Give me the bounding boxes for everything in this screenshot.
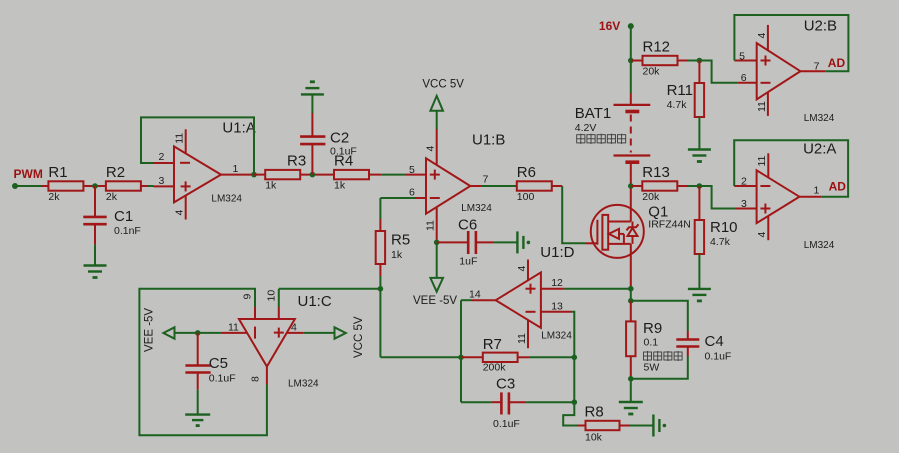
ground — [185, 415, 210, 426]
svg-text:C3: C3 — [496, 376, 515, 393]
svg-text:4: 4 — [425, 146, 437, 152]
svg-text:4.7k: 4.7k — [710, 236, 731, 248]
svg-text:11: 11 — [174, 133, 186, 144]
svg-text:16V: 16V — [599, 19, 620, 33]
power VCC arrow U1:C — [335, 316, 366, 358]
svg-text:8: 8 — [249, 376, 261, 382]
svg-text:R7: R7 — [483, 336, 502, 353]
ground — [517, 231, 530, 253]
resistor R7 — [483, 336, 518, 374]
wire — [698, 254, 700, 289]
wire — [631, 356, 688, 379]
svg-text:R2: R2 — [106, 164, 125, 181]
wire feedback U2:B — [734, 15, 848, 71]
node junction pin11-C6 — [434, 240, 440, 246]
resistor R9 — [626, 320, 662, 356]
wire — [630, 61, 632, 105]
svg-text:4: 4 — [516, 266, 528, 272]
svg-text:2k: 2k — [106, 191, 118, 203]
wire — [83, 185, 106, 187]
node junction R13-R10 — [697, 183, 703, 189]
svg-text:5W: 5W — [644, 362, 660, 374]
battery BAT1 — [575, 105, 651, 162]
svg-text:AD: AD — [828, 56, 846, 70]
svg-text:20k: 20k — [643, 66, 661, 78]
resistor R5 — [376, 219, 410, 276]
svg-text:4: 4 — [291, 322, 297, 334]
node junction C3-R8 — [572, 399, 578, 405]
wire — [630, 289, 632, 322]
svg-text:10: 10 — [266, 290, 278, 302]
wire — [630, 26, 632, 60]
wire — [631, 60, 643, 62]
svg-text:VCC 5V: VCC 5V — [422, 79, 464, 91]
svg-text:0.1uF: 0.1uF — [493, 418, 520, 430]
wire — [304, 332, 335, 334]
resistor R3 — [265, 153, 306, 192]
op-amp U1:C — [221, 290, 332, 390]
resistor R12 — [643, 39, 678, 78]
svg-text:4: 4 — [756, 33, 768, 39]
svg-text:U1:C: U1:C — [298, 293, 332, 310]
wire — [577, 425, 586, 427]
net label AD — [829, 180, 847, 194]
wire source — [630, 244, 632, 289]
svg-text:R10: R10 — [710, 219, 738, 236]
op-amp U2:A — [734, 141, 836, 252]
svg-text:11: 11 — [756, 155, 768, 166]
resistor R4 — [334, 153, 369, 192]
svg-text:U1:D: U1:D — [540, 244, 574, 261]
svg-text:4: 4 — [756, 232, 768, 238]
resistor R2 — [106, 164, 141, 203]
svg-text:C2: C2 — [330, 130, 349, 147]
svg-text:R9: R9 — [643, 320, 662, 337]
wire — [379, 276, 381, 289]
wire — [278, 289, 280, 307]
svg-text:IRFZ44N: IRFZ44N — [648, 219, 691, 231]
svg-text:2k: 2k — [48, 191, 60, 203]
wire — [630, 379, 632, 402]
svg-text:6: 6 — [409, 186, 415, 198]
ground — [653, 415, 666, 437]
svg-text:7: 7 — [483, 173, 489, 185]
svg-text:200k: 200k — [483, 362, 507, 374]
wire — [494, 241, 517, 243]
node 16V terminal — [599, 19, 634, 33]
svg-text:R13: R13 — [642, 164, 670, 181]
wire — [552, 185, 562, 187]
capacitor C3 — [492, 376, 527, 431]
svg-text:U2:A: U2:A — [803, 141, 836, 158]
svg-text:12: 12 — [551, 277, 563, 289]
value label R9 5W — [644, 362, 660, 374]
op-amp U2:B — [734, 18, 837, 125]
wire — [630, 356, 632, 379]
wire feedback U1:C — [139, 289, 267, 436]
wire — [254, 174, 265, 176]
svg-text:11: 11 — [425, 220, 437, 231]
svg-text:C5: C5 — [209, 355, 228, 372]
svg-text:4: 4 — [174, 210, 186, 216]
power VEE arrow U1:B — [413, 278, 457, 307]
svg-text:R4: R4 — [334, 153, 353, 170]
svg-text:5: 5 — [409, 164, 415, 176]
wire — [563, 402, 577, 425]
wire — [41, 185, 48, 187]
svg-text:R1: R1 — [48, 164, 67, 181]
resistor R11 — [667, 61, 705, 118]
svg-text:6: 6 — [741, 72, 747, 84]
svg-text:1: 1 — [814, 185, 820, 197]
wire — [461, 300, 472, 357]
svg-text:LM324: LM324 — [804, 240, 835, 251]
ground — [84, 266, 107, 278]
node junction U1:A output — [251, 172, 257, 178]
capacitor C2 — [300, 113, 357, 175]
wire — [699, 61, 737, 83]
ground — [688, 289, 711, 301]
svg-text:2: 2 — [741, 175, 747, 187]
svg-text:14: 14 — [469, 289, 481, 301]
svg-text:U2:B: U2:B — [804, 18, 837, 35]
svg-text:BAT1: BAT1 — [575, 105, 611, 122]
node junction R7-pin13 — [572, 355, 578, 361]
wire — [677, 185, 699, 187]
svg-text:LM324: LM324 — [804, 113, 835, 124]
wire — [380, 289, 461, 358]
svg-text:0.1: 0.1 — [644, 337, 659, 349]
wire — [461, 356, 483, 358]
svg-text:0.1uF: 0.1uF — [705, 351, 732, 363]
wire — [311, 94, 313, 113]
wire — [481, 185, 517, 187]
wire — [197, 390, 199, 415]
svg-text:C4: C4 — [705, 333, 724, 350]
resistor R1 — [48, 164, 83, 203]
ground — [688, 150, 711, 162]
node junction R12-R11 — [697, 58, 703, 64]
resistor R6 — [517, 164, 552, 203]
svg-text:LM324: LM324 — [541, 331, 572, 342]
wire — [573, 357, 575, 402]
op-amp U1:A — [154, 120, 256, 220]
svg-text:1: 1 — [233, 163, 239, 175]
wire — [279, 288, 381, 290]
op-amp U1:D — [469, 244, 575, 348]
wire — [141, 185, 174, 187]
wire — [518, 356, 575, 358]
svg-text:U1:B: U1:B — [472, 132, 505, 149]
resistor R8 — [585, 403, 620, 443]
capacitor C6 — [437, 217, 494, 268]
wire — [572, 312, 574, 358]
svg-text:LM324: LM324 — [461, 203, 492, 214]
wire — [300, 174, 334, 176]
svg-text:11: 11 — [756, 101, 768, 112]
svg-text:1uF: 1uF — [459, 256, 477, 268]
svg-text:20k: 20k — [642, 191, 660, 203]
wire — [460, 357, 462, 402]
svg-text:C1: C1 — [114, 208, 133, 225]
wire — [436, 242, 438, 278]
capacitor C5 — [185, 333, 235, 390]
node junction R1-R2-C1 — [92, 183, 98, 189]
svg-text:R5: R5 — [391, 232, 410, 249]
power VCC arrow U1:B — [422, 79, 464, 130]
svg-text:1k: 1k — [265, 180, 277, 192]
node junction 16V-R12 — [628, 58, 634, 64]
wire — [174, 332, 221, 334]
svg-text:10k: 10k — [585, 431, 603, 443]
capacitor C4 — [676, 331, 731, 363]
svg-text:3: 3 — [741, 198, 747, 210]
svg-text:VCC 5V: VCC 5V — [353, 316, 365, 358]
svg-text:7: 7 — [814, 60, 820, 72]
wire — [678, 60, 700, 62]
value label battery chinese — [577, 134, 626, 144]
svg-text:2: 2 — [159, 151, 165, 163]
node junction R9-C4 bottom — [628, 376, 634, 382]
svg-text:100: 100 — [517, 191, 535, 203]
svg-text:R11: R11 — [667, 82, 693, 99]
svg-text:1k: 1k — [334, 180, 346, 192]
node junction source-R9-C4 — [628, 298, 634, 304]
wire — [631, 185, 643, 187]
svg-text:3: 3 — [159, 175, 165, 187]
svg-text:U1:A: U1:A — [222, 120, 255, 137]
svg-text:VEE -5V: VEE -5V — [413, 295, 457, 307]
node junction source-pin12 — [628, 286, 634, 292]
svg-text:LM324: LM324 — [288, 379, 319, 390]
wire — [631, 301, 688, 331]
svg-text:11: 11 — [516, 333, 528, 344]
wire feedback U1:A — [141, 117, 254, 174]
svg-text:R12: R12 — [643, 39, 671, 56]
svg-text:0.1nF: 0.1nF — [114, 225, 141, 237]
ground — [619, 402, 643, 414]
node PWM input terminal — [12, 167, 43, 189]
wire — [15, 185, 41, 187]
node junction battery-R13-drain — [628, 183, 634, 189]
op-amp U1:B — [409, 129, 505, 242]
wire — [526, 401, 574, 403]
wire — [564, 288, 630, 290]
svg-text:R6: R6 — [517, 164, 536, 181]
wire feedback U2:A — [734, 140, 848, 197]
svg-text:R3: R3 — [287, 153, 306, 170]
svg-text:VEE -5V: VEE -5V — [144, 308, 156, 352]
transistor Q1 — [585, 204, 691, 258]
wire — [699, 186, 736, 209]
svg-text:LM324: LM324 — [211, 194, 242, 205]
svg-text:13: 13 — [551, 300, 563, 312]
wire — [698, 117, 700, 150]
wire — [620, 425, 654, 427]
wire drain — [630, 164, 632, 222]
capacitor C1 — [83, 186, 141, 244]
value label R9 chinese — [644, 351, 683, 361]
ground — [301, 82, 324, 95]
svg-text:4.7k: 4.7k — [667, 99, 688, 111]
wire — [94, 244, 96, 265]
svg-text:1k: 1k — [391, 249, 403, 261]
svg-text:4.2V: 4.2V — [575, 122, 597, 134]
node junction pin14-R7 — [458, 355, 464, 361]
node junction R5-U1C-U1D — [378, 286, 384, 292]
svg-text:C6: C6 — [458, 217, 477, 234]
svg-text:R8: R8 — [585, 403, 604, 420]
node junction pin11-C5 — [195, 330, 201, 336]
wire — [461, 401, 492, 403]
svg-text:PWM: PWM — [14, 167, 43, 181]
svg-text:11: 11 — [228, 322, 239, 334]
svg-text:5: 5 — [739, 50, 745, 62]
net label AD — [828, 56, 846, 70]
wire — [562, 186, 585, 243]
node junction R3-R4-C2 — [310, 172, 316, 178]
resistor R10 — [695, 186, 738, 254]
resistor R13 — [642, 164, 677, 203]
svg-text:0.1uF: 0.1uF — [209, 373, 236, 385]
svg-text:9: 9 — [242, 294, 254, 300]
wire — [380, 198, 415, 219]
wire — [369, 174, 426, 176]
power VEE arrow U1:C — [144, 308, 175, 352]
svg-text:AD: AD — [829, 180, 847, 194]
